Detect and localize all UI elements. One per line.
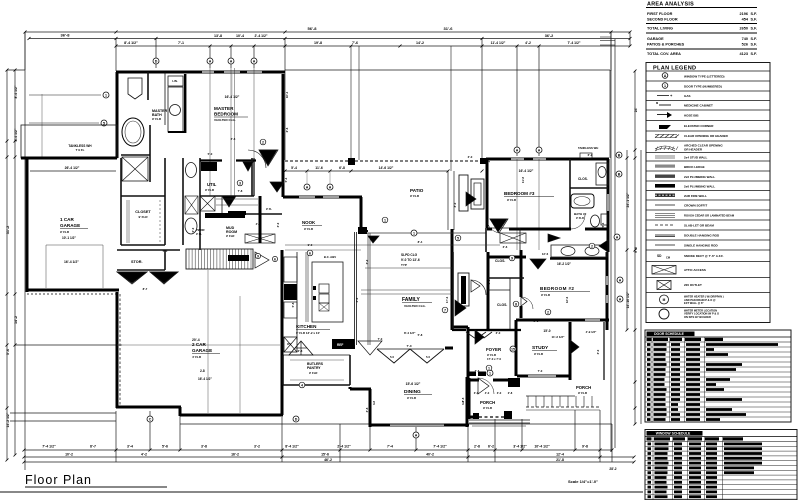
svg-text:2: 2 [547, 311, 549, 315]
svg-text:12'-4: 12'-4 [556, 453, 564, 457]
svg-text:TOTAL LIVING: TOTAL LIVING [647, 27, 673, 31]
svg-text:6'-8: 6'-8 [339, 166, 345, 170]
svg-text:B: B [618, 154, 621, 158]
svg-text:7'-0: 7'-0 [378, 337, 383, 341]
svg-text:2'-4 1/2": 2'-4 1/2" [337, 445, 351, 449]
svg-text:17'-2: 17'-2 [445, 296, 449, 303]
svg-text:5'-6: 5'-6 [162, 445, 168, 449]
svg-text:14'-6 1/2": 14'-6 1/2" [379, 166, 394, 170]
svg-text:2-8: 2-8 [200, 369, 205, 373]
svg-text:ATTIC ACCESS: ATTIC ACCESS [684, 268, 706, 272]
svg-text:FOYER: FOYER [486, 347, 502, 352]
svg-text:PORCH: PORCH [480, 400, 495, 405]
svg-text:3'-4 1/2": 3'-4 1/2" [513, 445, 527, 449]
svg-text:5'-4: 5'-4 [601, 222, 605, 227]
svg-text:PATIOS & PORCHES: PATIOS & PORCHES [647, 43, 685, 47]
svg-text:B: B [618, 173, 621, 177]
svg-text:7'-4: 7'-4 [387, 445, 393, 449]
svg-text:9' FLR: 9' FLR [138, 215, 148, 219]
svg-text:BEDROOM #3: BEDROOM #3 [504, 191, 535, 196]
svg-text:4: 4 [301, 384, 303, 388]
svg-text:12'-6: 12'-6 [565, 296, 569, 303]
svg-text:13'-6: 13'-6 [542, 252, 549, 256]
svg-text:4'-2: 4'-2 [525, 41, 531, 45]
svg-text:2x6 PLUMBING WALL: 2x6 PLUMBING WALL [684, 175, 715, 179]
svg-text:3'-6: 3'-6 [475, 369, 480, 373]
svg-text:16'-4 1/2": 16'-4 1/2" [64, 260, 79, 264]
svg-text:3'-0: 3'-0 [276, 222, 280, 227]
svg-text:3: 3 [239, 182, 241, 186]
svg-text:7: 7 [444, 309, 446, 313]
svg-text:10'-2: 10'-2 [65, 453, 73, 457]
svg-text:AREA ANALYSIS: AREA ANALYSIS [647, 2, 694, 8]
svg-text:3'-4: 3'-4 [127, 445, 133, 449]
svg-text:C: C [149, 418, 152, 422]
svg-text:6'-2: 6'-2 [588, 153, 593, 157]
svg-text:D: D [155, 60, 158, 64]
svg-text:31'-2: 31'-2 [6, 226, 10, 235]
svg-text:3'-8: 3'-8 [461, 397, 465, 402]
svg-text:FIRST FLOOR: FIRST FLOOR [647, 12, 673, 16]
svg-text:740: 740 [742, 37, 748, 41]
svg-text:8: 8 [515, 303, 517, 307]
svg-text:DOOR SCHEDULE: DOOR SCHEDULE [654, 332, 685, 336]
svg-text:GAS: GAS [684, 94, 691, 98]
svg-text:2'-8: 2'-8 [298, 349, 303, 353]
svg-text:GARAGE: GARAGE [60, 223, 80, 228]
svg-text:16'-4: 16'-4 [285, 91, 289, 98]
svg-text:2650: 2650 [740, 27, 748, 31]
svg-text:16'-4 1/2": 16'-4 1/2" [198, 377, 212, 381]
svg-text:3'-8: 3'-8 [365, 407, 369, 412]
svg-text:7'-0: 7'-0 [406, 344, 411, 348]
svg-text:Floor Plan: Floor Plan [25, 473, 92, 487]
svg-text:SD: SD [657, 254, 662, 258]
svg-text:40'-2: 40'-2 [426, 453, 434, 457]
svg-text:3'-2: 3'-2 [254, 445, 260, 449]
svg-text:5'-8: 5'-8 [418, 333, 423, 337]
svg-text:2: 2 [262, 141, 264, 145]
svg-text:9' FLR: 9' FLR [407, 396, 417, 400]
svg-text:36'-8: 36'-8 [61, 33, 71, 38]
svg-text:19'-8: 19'-8 [314, 41, 322, 45]
svg-text:15'-6 1/2": 15'-6 1/2" [406, 382, 421, 386]
svg-text:1: 1 [489, 372, 491, 376]
svg-text:A: A [664, 74, 667, 78]
svg-text:46'-2: 46'-2 [324, 458, 332, 462]
svg-text:BEDROOM #2: BEDROOM #2 [540, 286, 574, 291]
svg-text:TYP: TYP [401, 263, 407, 267]
svg-text:8'-4: 8'-4 [418, 240, 423, 244]
svg-text:7'-4 1/2": 7'-4 1/2" [568, 41, 581, 45]
svg-text:9: 9 [511, 257, 513, 261]
svg-text:11'-8: 11'-8 [521, 177, 525, 184]
svg-text:7'-6: 7'-6 [352, 41, 358, 45]
svg-text:36'-2: 36'-2 [545, 34, 554, 38]
svg-text:3'-8: 3'-8 [201, 445, 207, 449]
svg-text:11'-4 1/2": 11'-4 1/2" [491, 41, 506, 45]
svg-text:220 OUTLET: 220 OUTLET [684, 283, 702, 287]
svg-text:11'-2 1/2": 11'-2 1/2" [552, 335, 566, 339]
svg-text:A: A [619, 298, 622, 302]
svg-text:WINDOW TYPE (LETTERED): WINDOW TYPE (LETTERED) [684, 75, 725, 79]
svg-text:4'-6: 4'-6 [256, 222, 261, 226]
svg-text:BATH #2: BATH #2 [574, 212, 587, 216]
svg-text:14'-2 1/2": 14'-2 1/2" [6, 412, 10, 427]
svg-text:10'-4: 10'-4 [236, 34, 244, 38]
svg-text:DOUBLE HANGING ROD: DOUBLE HANGING ROD [684, 234, 720, 238]
svg-text:3'-0: 3'-0 [496, 331, 501, 335]
svg-text:13'-8: 13'-8 [214, 34, 222, 38]
svg-text:4123: 4123 [740, 52, 748, 56]
svg-text:5'-0: 5'-0 [208, 152, 213, 156]
svg-text:9' FLR: 9' FLR [534, 352, 544, 356]
svg-text:A: A [516, 149, 519, 153]
svg-text:A: A [230, 60, 233, 64]
svg-text:S.F.: S.F. [750, 43, 757, 47]
svg-text:6: 6 [274, 258, 276, 262]
svg-text:OV: OV [287, 342, 291, 346]
svg-text:2'-4 1/2": 2'-4 1/2" [255, 34, 268, 38]
svg-text:BRICK LEDGE: BRICK LEDGE [684, 165, 705, 169]
svg-text:9'-8: 9'-8 [582, 445, 588, 449]
svg-text:24': 24' [634, 108, 638, 113]
svg-text:1 CAR: 1 CAR [60, 217, 74, 222]
svg-text:CLOS.: CLOS. [497, 303, 507, 307]
svg-text:9' FLR: 9' FLR [226, 234, 234, 238]
svg-text:2x4 STUD WALL: 2x4 STUD WALL [684, 156, 708, 160]
svg-text:9' FL: 9' FL [266, 207, 272, 211]
svg-text:CLEAR OPENING OR HEADER: CLEAR OPENING OR HEADER [684, 134, 729, 138]
svg-text:TOTAL COV. AREA: TOTAL COV. AREA [647, 52, 681, 56]
svg-text:A: A [329, 186, 332, 190]
svg-text:A: A [538, 149, 541, 153]
svg-text:2'-6: 2'-6 [285, 127, 289, 132]
svg-text:11'-6: 11'-6 [315, 166, 323, 170]
svg-text:PATIO: PATIO [410, 188, 424, 193]
svg-text:16'-2 1/2": 16'-2 1/2" [557, 262, 571, 266]
svg-text:VAULTED CLG.: VAULTED CLG. [214, 118, 236, 122]
svg-text:B.C. ABV: B.C. ABV [324, 255, 336, 259]
svg-text:TANKLESS WH: TANKLESS WH [578, 146, 598, 150]
svg-text:9' FLR: 9' FLR [541, 293, 551, 297]
svg-text:7'-8: 7'-8 [238, 189, 243, 193]
svg-text:A: A [616, 236, 619, 240]
svg-text:MEDICINE CABINET: MEDICINE CABINET [684, 104, 713, 108]
svg-text:FAMILY: FAMILY [402, 297, 421, 303]
svg-text:M: M [663, 298, 666, 302]
svg-text:3-8: 3-8 [372, 401, 376, 405]
svg-text:Scale 1/4"=1'-0": Scale 1/4"=1'-0" [568, 479, 598, 484]
svg-text:28'-2: 28'-2 [609, 467, 616, 471]
svg-text:8'-4 1/2": 8'-4 1/2" [285, 445, 299, 449]
svg-text:NOOK: NOOK [302, 220, 316, 225]
svg-text:10'-4 1/2": 10'-4 1/2" [534, 445, 550, 449]
svg-text:4' FLR: 4' FLR [192, 355, 202, 359]
svg-text:A: A [415, 434, 418, 438]
svg-text:9' FLR: 9' FLR [304, 227, 314, 231]
svg-text:2'-8: 2'-8 [534, 319, 539, 323]
svg-text:SLPD CLG: SLPD CLG [401, 253, 418, 257]
svg-text:9' FLR: 9' FLR [576, 216, 584, 220]
svg-text:4'-2: 4'-2 [141, 453, 147, 457]
svg-text:9' FLR: 9' FLR [410, 194, 420, 198]
svg-text:526: 526 [742, 43, 748, 47]
svg-text:5-0: 5-0 [426, 355, 430, 359]
svg-text:2196: 2196 [740, 12, 748, 16]
svg-text:S.F.: S.F. [750, 12, 757, 16]
svg-text:S.F.: S.F. [750, 27, 757, 31]
svg-text:7'-4 1/2": 7'-4 1/2" [433, 445, 447, 449]
svg-text:6'-8: 6'-8 [487, 279, 491, 284]
svg-text:STUDY: STUDY [532, 345, 549, 351]
svg-text:A: A [619, 279, 622, 283]
svg-text:9' FLR: 9' FLR [309, 371, 317, 375]
svg-text:4'-0: 4'-0 [519, 282, 523, 287]
svg-text:9' FLR: 9' FLR [205, 188, 215, 192]
svg-text:56'-8: 56'-8 [308, 26, 318, 31]
svg-text:SLAB-LET OR BEAM: SLAB-LET OR BEAM [684, 224, 714, 228]
svg-text:2x6 PLUMBING WALL: 2x6 PLUMBING WALL [684, 185, 715, 189]
svg-text:A: A [306, 186, 309, 190]
svg-text:9' FLR: 9' FLR [507, 198, 517, 202]
svg-text:DOOR TYPE (NUMBERED): DOOR TYPE (NUMBERED) [684, 85, 722, 89]
svg-text:5-0: 5-0 [390, 355, 394, 359]
svg-text:4'-0: 4'-0 [355, 297, 359, 302]
svg-text:CM: CM [666, 256, 670, 260]
svg-text:SECOND FLOOR: SECOND FLOOR [647, 18, 678, 22]
svg-text:9' FLR: 9' FLR [483, 406, 493, 410]
svg-text:4'-9 1/2": 4'-9 1/2" [586, 330, 597, 334]
svg-text:6: 6 [309, 252, 311, 256]
svg-text:9' FLR 13'-2 x 10': 9' FLR 13'-2 x 10' [296, 331, 320, 335]
svg-text:9' FLR: 9' FLR [152, 117, 162, 121]
svg-text:EXT WALL @ 6": EXT WALL @ 6" [684, 301, 704, 305]
svg-text:MASTER: MASTER [214, 106, 234, 111]
svg-text:REF: REF [337, 343, 343, 347]
svg-text:3'-0: 3'-0 [596, 349, 600, 354]
svg-text:OR HEADER: OR HEADER [684, 148, 703, 152]
svg-text:BEDROOM: BEDROOM [214, 112, 238, 117]
svg-text:5'-4: 5'-4 [284, 177, 288, 182]
svg-text:14'-2: 14'-2 [416, 41, 424, 45]
svg-text:1: 1 [105, 94, 107, 98]
svg-text:1: 1 [413, 232, 415, 236]
svg-text:CROWN SOFFIT: CROWN SOFFIT [684, 204, 707, 208]
svg-text:1: 1 [384, 219, 386, 223]
svg-text:5'-4: 5'-4 [291, 166, 297, 170]
svg-text:2'-6: 2'-6 [231, 137, 236, 141]
svg-text:24'-1 1/2": 24'-1 1/2" [626, 192, 630, 207]
svg-text:A: A [209, 60, 212, 64]
svg-text:CLOS.: CLOS. [495, 259, 505, 263]
svg-text:STOR.: STOR. [131, 260, 143, 264]
svg-text:17'-0 x 7'-0: 17'-0 x 7'-0 [487, 357, 502, 361]
svg-text:15'-0: 15'-0 [543, 329, 550, 333]
svg-text:5'-8: 5'-8 [291, 302, 295, 307]
svg-text:9' FLR: 9' FLR [60, 230, 70, 234]
svg-text:2'-8: 2'-8 [474, 445, 480, 449]
svg-text:2 CAR: 2 CAR [192, 342, 206, 347]
svg-text:A: A [253, 60, 256, 64]
svg-text:HOSE BIB: HOSE BIB [684, 114, 699, 118]
svg-text:S.F.: S.F. [750, 52, 757, 56]
svg-text:8'-7: 8'-7 [143, 287, 148, 291]
svg-text:8'-0: 8'-0 [453, 202, 457, 207]
svg-text:WINDOW SCHEDULE: WINDOW SCHEDULE [656, 432, 691, 436]
svg-text:6'-2: 6'-2 [488, 445, 494, 449]
svg-text:1: 1 [664, 84, 666, 88]
svg-text:14'-10 1/2": 14'-10 1/2" [626, 291, 630, 308]
svg-text:5'-6: 5'-6 [6, 349, 10, 355]
svg-text:14'-2: 14'-2 [14, 316, 18, 324]
svg-text:3'-2: 3'-2 [365, 259, 369, 264]
svg-text:D: D [295, 418, 298, 422]
svg-text:8'-4 1/2": 8'-4 1/2" [124, 41, 138, 45]
svg-text:6'-0: 6'-0 [568, 352, 572, 357]
svg-text:5'-0: 5'-0 [163, 249, 168, 253]
svg-text:VAULTED CLG.: VAULTED CLG. [404, 304, 426, 308]
svg-text:31'-6: 31'-6 [444, 26, 454, 31]
svg-text:SMOKE DECT @ 7'-6" A.F.F.: SMOKE DECT @ 7'-6" A.F.F. [684, 254, 724, 258]
svg-text:KITCHEN: KITCHEN [296, 324, 317, 329]
svg-text:8'-4 1/2": 8'-4 1/2" [14, 85, 18, 98]
svg-text:2'-8: 2'-8 [487, 157, 491, 162]
svg-text:7'-0: 7'-0 [538, 369, 543, 373]
svg-text:3'-0: 3'-0 [468, 155, 473, 159]
svg-text:2: 2 [591, 245, 593, 249]
svg-text:10'-1 1/2": 10'-1 1/2" [62, 236, 76, 240]
svg-text:GARAGE: GARAGE [647, 37, 664, 41]
svg-text:8'-4 1/2": 8'-4 1/2" [404, 331, 416, 335]
svg-text:454: 454 [742, 18, 749, 22]
svg-text:15'-6: 15'-6 [321, 453, 329, 457]
svg-text:SINGLE HANGING ROD: SINGLE HANGING ROD [684, 244, 719, 248]
svg-text:21'-8: 21'-8 [556, 458, 564, 462]
svg-text:S.F.: S.F. [750, 18, 757, 22]
svg-text:CLOSET: CLOSET [135, 210, 151, 214]
svg-text:3'-6: 3'-6 [503, 245, 508, 249]
svg-text:GARAGE: GARAGE [192, 348, 212, 353]
svg-text:2'-8: 2'-8 [508, 391, 513, 395]
svg-text:2HR FIRE WALL: 2HR FIRE WALL [684, 194, 707, 198]
svg-text:26'-4 1/2": 26'-4 1/2" [65, 166, 80, 170]
svg-text:15: 15 [511, 348, 515, 352]
svg-text:1: 1 [488, 367, 490, 371]
svg-text:LIN.: LIN. [172, 79, 178, 83]
svg-text:ROUGH CEDAR OR LAMINATED BEAM: ROUGH CEDAR OR LAMINATED BEAM [684, 214, 735, 218]
svg-text:M: M [656, 101, 658, 105]
svg-text:6'-0: 6'-0 [191, 227, 195, 232]
svg-text:PANTRY: PANTRY [307, 366, 321, 370]
svg-text:T 9 FL: T 9 FL [76, 148, 85, 152]
svg-text:16'-2: 16'-2 [231, 453, 239, 457]
svg-text:7'-4 1/2": 7'-4 1/2" [42, 445, 56, 449]
svg-text:PWDR: PWDR [196, 228, 205, 232]
svg-text:16'-4 1/2": 16'-4 1/2" [519, 169, 534, 173]
svg-text:4'-0: 4'-0 [485, 391, 490, 395]
svg-text:9' FL: 9' FL [196, 232, 202, 236]
svg-text:DINING: DINING [404, 389, 421, 395]
svg-text:9'-0 TO 13'-6: 9'-0 TO 13'-6 [401, 258, 420, 262]
svg-text:S.F.: S.F. [750, 37, 757, 41]
svg-text:8'-7: 8'-7 [90, 445, 96, 449]
svg-text:9'-0: 9'-0 [308, 243, 313, 247]
svg-text:CLOS.: CLOS. [578, 177, 588, 181]
svg-text:7'-1: 7'-1 [178, 41, 184, 45]
svg-text:3'-0: 3'-0 [497, 391, 502, 395]
svg-text:UTIL: UTIL [207, 182, 217, 187]
svg-text:ON SITE BY BUILDER: ON SITE BY BUILDER [684, 315, 711, 319]
svg-text:9: 9 [257, 255, 259, 259]
svg-text:9' FLR: 9' FLR [578, 391, 588, 395]
svg-text:5: 5 [457, 237, 459, 241]
svg-text:PLAN LEGEND: PLAN LEGEND [653, 66, 696, 72]
svg-text:ELEVATED CORNER: ELEVATED CORNER [684, 124, 714, 128]
svg-text:PORCH: PORCH [576, 385, 591, 390]
